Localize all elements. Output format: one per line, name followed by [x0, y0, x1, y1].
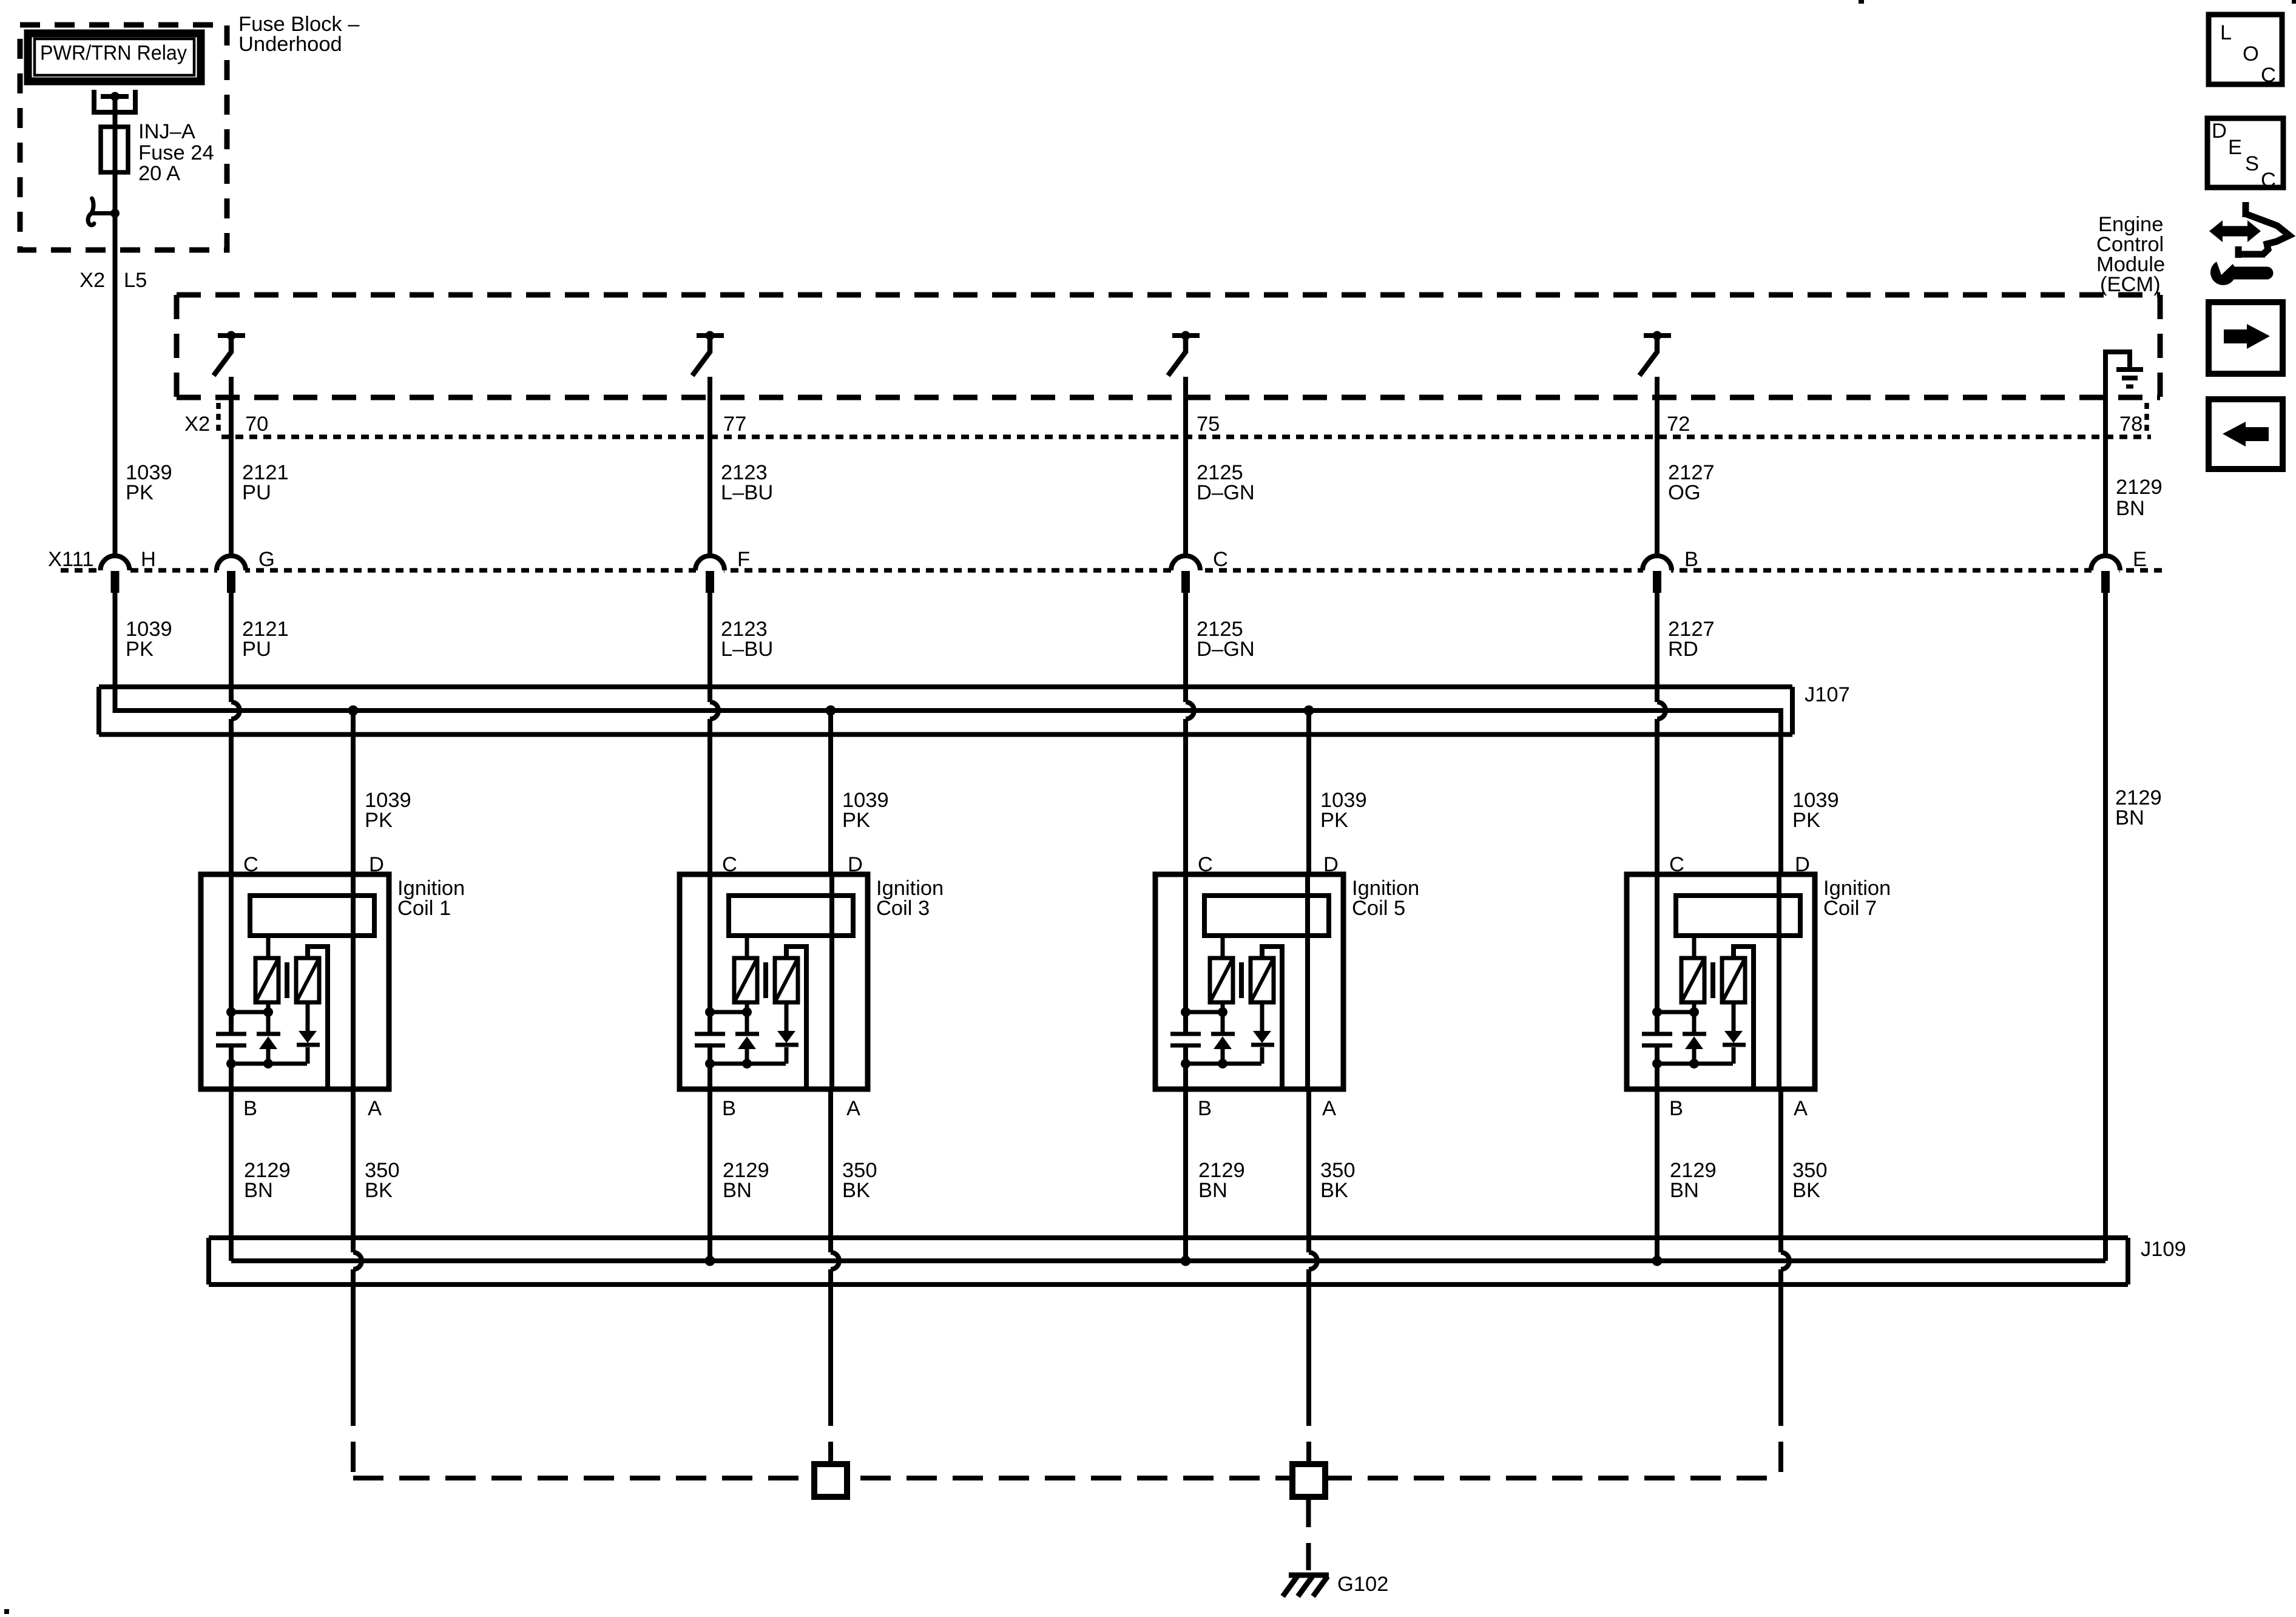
svg-text:X2: X2 [79, 269, 105, 292]
ECM driver switch (pin 70) [218, 333, 245, 338]
svg-text:H: H [141, 548, 156, 571]
ECM driver switch (pin 77) [697, 333, 724, 338]
node: relay output dot [110, 92, 120, 101]
svg-text:F: F [737, 548, 750, 571]
svg-text:PK: PK [1792, 809, 1820, 832]
ECM dashed box [177, 295, 2160, 397]
relay K1 PWR/TRN Relay box [28, 33, 201, 81]
svg-text:Underhood: Underhood [238, 33, 342, 56]
svg-text:X2: X2 [184, 413, 210, 436]
stray scan mark top right [2292, 0, 2296, 4]
svg-text:PU: PU [242, 638, 271, 661]
svg-text:BN: BN [1670, 1179, 1699, 1202]
wire hop over J109 internal bus [353, 1252, 362, 1269]
svg-text:PK: PK [1320, 809, 1348, 832]
svg-text:78: 78 [2119, 413, 2142, 436]
connector X2 dotted line [221, 434, 2151, 439]
connector X111 dotted line [61, 568, 2163, 573]
node: J107 splice dot [826, 706, 836, 716]
wire dashed: splice to ground G102 [1306, 1497, 1311, 1570]
connector X2 L5 labels [79, 269, 147, 292]
connector X111 pin B [1643, 566, 1671, 575]
splice S112 box [1292, 1464, 1325, 1497]
stray scan mark top [1859, 0, 1864, 4]
connector X111 pin E [2092, 566, 2119, 575]
svg-text:Coil 5: Coil 5 [1352, 897, 1405, 920]
svg-text:L: L [2220, 21, 2232, 44]
svg-text:C: C [2261, 169, 2276, 192]
ignition coil 7 [1627, 853, 1815, 1120]
ground run dashed wire [353, 1476, 1781, 1480]
svg-text:INJ–A: INJ–A [138, 120, 195, 143]
node: J109 splice dot [1652, 1256, 1663, 1266]
ECM internal ground at pin 78 [2105, 352, 2130, 398]
svg-text:PK: PK [126, 481, 154, 504]
connector X111 pin F [696, 566, 724, 575]
svg-text:OG: OG [1668, 481, 1701, 504]
svg-text:PU: PU [242, 481, 271, 504]
svg-text:E: E [2228, 136, 2242, 159]
fuse F24 INJ-A 20A [101, 127, 128, 172]
wire 350 BK: coil A through J109 [351, 1089, 356, 1252]
svg-text:S: S [2245, 152, 2259, 175]
node: J107 splice dot [348, 706, 359, 716]
wire hop over J107 internal bus [1657, 702, 1666, 719]
svg-text:BK: BK [1320, 1179, 1348, 1202]
wire 2129 BN: coil 1 B to J109 internal bus [229, 1089, 234, 1261]
wire hop over J109 internal bus [831, 1252, 839, 1269]
wire 350 BK dashed: coil 3 A to splice [828, 1396, 833, 1464]
wire hop over J109 internal bus [1781, 1252, 1789, 1269]
icon box LOC [2209, 15, 2282, 84]
wire: fuse to relay contact [113, 172, 118, 250]
wire from switch pin 72 [1655, 377, 1660, 556]
connector X111 pin C [1172, 566, 1200, 575]
svg-text:77: 77 [723, 413, 746, 436]
svg-text:L–BU: L–BU [721, 638, 773, 661]
svg-text:72: 72 [1667, 413, 1690, 436]
svg-text:L5: L5 [124, 269, 147, 292]
wire 350 BK: coil A through J109 [828, 1089, 833, 1252]
svg-text:C: C [1213, 548, 1228, 571]
ignition coil 5 [1155, 853, 1343, 1120]
svg-text:PK: PK [126, 638, 154, 661]
node: contact junction dot [110, 209, 120, 218]
icon box right arrow [2209, 302, 2283, 374]
wire 1039 PK feed: down from fuse block, along J107, to coil 7 D [115, 593, 1781, 874]
wire 2129 BN: J109 internal bus to ECM pin 78 [231, 1258, 2105, 1263]
wire from X111 to J107 [229, 593, 234, 702]
splice pack J107 housing [99, 687, 1792, 735]
wire from X111 to J107 [707, 593, 712, 702]
icon: double arrow [2209, 220, 2261, 242]
wire 350 BK: coil A through J109 [1306, 1089, 1311, 1252]
splice pack J109 housing [209, 1238, 2128, 1284]
wire 1039 PK to coil D [828, 711, 833, 874]
wire hop over J107 internal bus [1186, 702, 1194, 719]
wire 350 BK: coil A through J109 [1778, 1089, 1783, 1252]
wire from X111 to J107 [1655, 593, 1660, 702]
svg-text:BK: BK [1792, 1179, 1820, 1202]
svg-text:2129: 2129 [2116, 476, 2163, 499]
icon: hand with wrench (service) [2237, 202, 2289, 258]
relay contact switch [92, 211, 115, 215]
connector X2 tick right [2144, 403, 2149, 432]
connector X111 pin H [101, 566, 129, 575]
svg-text:70: 70 [245, 413, 268, 436]
wire 1039 PK: fuse block to X111 [113, 214, 118, 556]
wire from switch pin 70 [229, 377, 234, 556]
stray mark bottom left [4, 1609, 9, 1614]
icon: wrench [2210, 260, 2236, 285]
icon box DESC [2207, 118, 2283, 187]
svg-text:PWR/TRN Relay: PWR/TRN Relay [40, 42, 187, 65]
wire hop over J107 internal bus [231, 702, 240, 719]
wire hop over J107 internal bus [710, 702, 718, 719]
svg-text:BN: BN [2115, 806, 2144, 829]
svg-text:G: G [258, 548, 275, 571]
ECM driver switch (pin 72) [1644, 333, 1671, 338]
wire hop over J109 internal bus [1309, 1252, 1317, 1269]
wire: relay to fuse [113, 96, 118, 127]
splice S114 box [814, 1464, 847, 1497]
svg-text:BN: BN [244, 1179, 273, 1202]
wire 2129 BN: coil B to J109 [707, 1089, 712, 1261]
wire 2129 BN from ECM pin 78 [2103, 397, 2108, 556]
connector X2 tick left [216, 403, 221, 432]
svg-text:B: B [1684, 548, 1698, 571]
ground G102 symbol [1289, 1573, 1329, 1578]
svg-text:Fuse 24: Fuse 24 [138, 141, 214, 164]
node: J109 splice dot [1181, 1256, 1191, 1266]
wire 350 BK dashed: coil 7 A to ground run [1778, 1396, 1783, 1478]
relay terminal bracket [92, 90, 138, 112]
wire 1039 PK to coil D [351, 711, 356, 874]
wire 1039 PK to coil D [1306, 711, 1311, 874]
svg-text:J109: J109 [2141, 1238, 2186, 1261]
svg-text:BN: BN [723, 1179, 752, 1202]
fuse block U3 dashed box "Fuse Block - Underhood" [20, 25, 227, 250]
svg-text:C: C [2261, 64, 2276, 87]
svg-text:PK: PK [842, 809, 870, 832]
svg-text:20 A: 20 A [138, 162, 180, 185]
wire from X111 to J107 [1183, 593, 1188, 702]
svg-text:75: 75 [1197, 413, 1220, 436]
svg-text:BN: BN [2116, 497, 2145, 520]
svg-text:L–BU: L–BU [721, 481, 773, 504]
wire from switch pin 77 [707, 377, 712, 556]
svg-text:D–GN: D–GN [1197, 638, 1255, 661]
wire from switch pin 75 [1183, 377, 1188, 556]
svg-text:(ECM): (ECM) [2100, 273, 2161, 296]
wire 350 BK dashed: coil 5 A to splice [1306, 1396, 1311, 1464]
connector X111 pin G [217, 566, 245, 575]
svg-text:E: E [2133, 548, 2147, 571]
svg-text:J107: J107 [1805, 683, 1850, 706]
wire: through fuse [113, 127, 118, 172]
svg-text:G102: G102 [1337, 1573, 1388, 1596]
wire 350 BK dashed: coil 1 A to ground run [351, 1396, 356, 1478]
wire 2129 BN: coil B to J109 [1183, 1089, 1188, 1261]
svg-text:D–GN: D–GN [1197, 481, 1255, 504]
svg-text:Coil 3: Coil 3 [876, 897, 930, 920]
node: J109 splice dot [705, 1256, 715, 1266]
ECM driver switch (pin 75) [1172, 333, 1200, 338]
node: J107 splice dot [1304, 706, 1314, 716]
label: Fuse Block - Underhood [238, 13, 360, 56]
svg-text:D: D [2212, 120, 2227, 143]
icon box left arrow [2209, 399, 2283, 469]
svg-text:BN: BN [1198, 1179, 1227, 1202]
svg-text:BK: BK [842, 1179, 870, 1202]
svg-text:O: O [2243, 42, 2259, 66]
ignition coil 1 [201, 853, 389, 1120]
ignition coil 3 [680, 853, 868, 1120]
wire 2129 BN: coil B to J109 [1655, 1089, 1660, 1261]
svg-text:Coil 1: Coil 1 [397, 897, 451, 920]
svg-text:RD: RD [1668, 638, 1698, 661]
svg-text:BK: BK [365, 1179, 393, 1202]
svg-text:X111: X111 [48, 548, 93, 571]
svg-text:PK: PK [365, 809, 393, 832]
svg-text:Coil 7: Coil 7 [1823, 897, 1877, 920]
